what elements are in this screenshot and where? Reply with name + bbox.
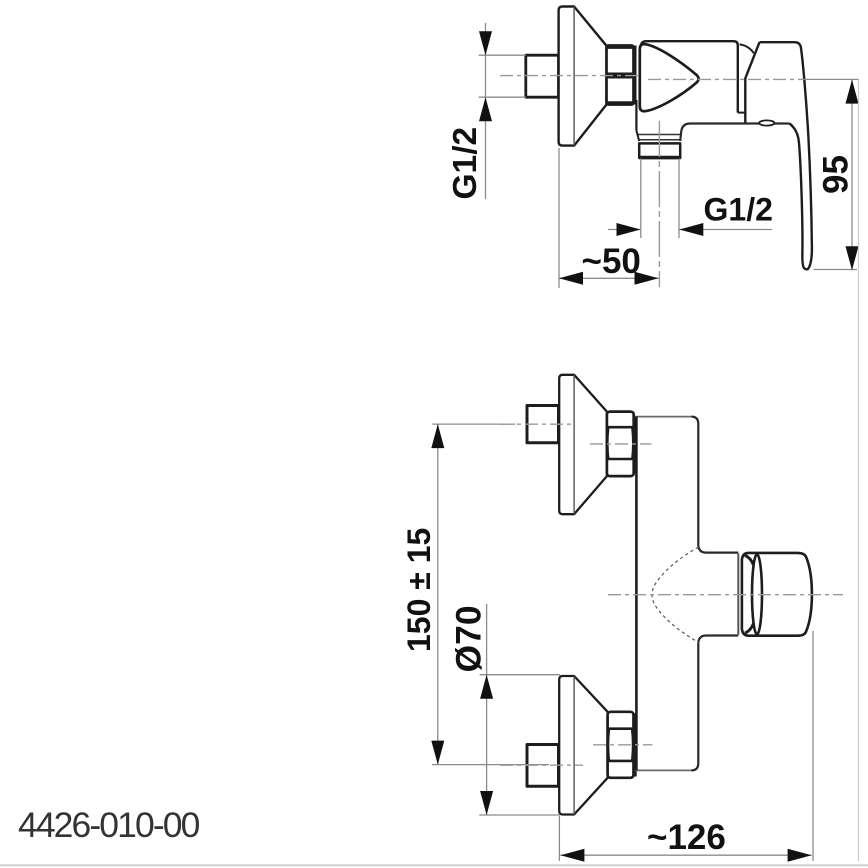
outlet extension lines below nut (640, 159, 642, 239)
svg-text:Ø70: Ø70 (449, 605, 489, 672)
top escutcheon (front view) (559, 375, 607, 514)
faint bottom border line (0, 864, 868, 866)
top hex nut (front view) (607, 412, 634, 477)
handle cap base ellipse (752, 554, 762, 634)
dimension 95 line (851, 80, 853, 271)
dimension diam70 extension bottom (479, 814, 560, 816)
centerline horizontal right segment (handle axis) (648, 78, 802, 80)
dimension G1/2 (wall pipe) line (485, 23, 487, 199)
bottom escutcheon (front view) (559, 676, 607, 815)
dimension 95 extension top (802, 78, 859, 80)
faint right border line (858, 79, 860, 861)
dimension ~126 extension left (558, 816, 560, 861)
bottom hex nut (front view) (608, 712, 634, 778)
bottom wall pipe stub (front view) (527, 745, 559, 787)
cap corner arcs (745, 556, 754, 566)
body plate left edge (635, 417, 638, 771)
dimension diam70 extension top (480, 674, 560, 676)
svg-text:95: 95 (816, 155, 855, 194)
bridge between body and handle base (738, 112, 745, 114)
top wall pipe stub (front view) (527, 406, 559, 443)
escutcheon wall flange (side view) (559, 7, 607, 146)
wall supply pipe stub (side view) (526, 55, 559, 97)
extension line top of pipe (479, 54, 526, 56)
dimension ~50 extension left (558, 148, 560, 288)
svg-text:150 ± 15: 150 ± 15 (401, 528, 437, 652)
svg-text:4426-010-00: 4426-010-00 (18, 805, 200, 845)
outlet hose nut (side view) (639, 143, 680, 157)
handle lever (side view) (760, 42, 812, 269)
dimension ~126 line (560, 854, 811, 856)
top connector centerline (front view) (500, 423, 572, 425)
arrow up to pipe bottom (479, 97, 492, 121)
centerline horizontal left segment (side view axis) (500, 75, 639, 77)
body plate (front view) (635, 416, 692, 418)
dimension 150 extension top (432, 423, 515, 425)
dimension 150 extension bottom (432, 764, 549, 766)
oval detail on neck (759, 120, 774, 125)
escutcheon face line (573, 7, 575, 146)
handle cap (front view) (742, 553, 812, 636)
arrow up 95 (846, 80, 859, 104)
mixer body (side view) top and right edges (641, 41, 738, 112)
outlet left taper edge (636, 131, 639, 142)
dimension 150 line (437, 424, 439, 764)
dimension 95 extension bottom (814, 269, 858, 271)
neck bottom line with corner to outlet (680, 124, 789, 142)
top washer bar (634, 416, 637, 473)
arrow down 95 (846, 246, 859, 270)
svg-text:~50: ~50 (582, 242, 641, 281)
handle collar arc (740, 44, 754, 53)
dimension diam70 line (486, 604, 488, 815)
dimension ~126 extension right (812, 631, 814, 861)
extension line bottom of pipe (479, 96, 526, 98)
svg-text:G1/2: G1/2 (704, 192, 773, 228)
washer line between nut and body (634, 46, 637, 105)
cartridge dome curve (front view) (652, 547, 699, 642)
bottom washer bar (634, 713, 637, 776)
handle collar line (front view) (737, 554, 739, 635)
top nut centerline (front view) (590, 443, 652, 445)
bottom nut centerline (front view) (593, 744, 653, 746)
hex union nut (side view) (607, 46, 634, 105)
svg-text:G1/2: G1/2 (447, 127, 484, 200)
arrow down to pipe top (479, 31, 492, 55)
body left edge below nut (635, 100, 637, 131)
cartridge dome bullet (side view) (640, 44, 699, 111)
dimension G1/2 (outlet) right leader (679, 229, 772, 231)
dimension ~50 line (559, 277, 659, 279)
dimension G1/2 (outlet) left leader (608, 229, 641, 231)
bottom connector centerline (front view) (500, 764, 583, 766)
outlet taper rings (637, 134, 680, 136)
handle base slant and front edge (745, 42, 759, 123)
outlet axis line (658, 121, 660, 287)
svg-text:~126: ~126 (647, 818, 726, 857)
front view main centerline (608, 594, 843, 596)
